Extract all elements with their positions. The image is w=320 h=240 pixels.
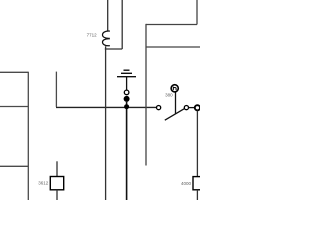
svg-text:3612: 3612 [38,180,49,185]
switch blade [165,109,185,121]
resistor 4000 [193,177,204,190]
wire [0,165,28,167]
wire [196,190,198,200]
wire [56,190,58,200]
junction dot [124,104,129,109]
svg-text:4000: 4000 [181,181,192,186]
wire [56,161,58,176]
contact circle (filled) [124,96,130,102]
wire [107,0,109,31]
wire [196,111,198,177]
terminal ring [195,105,200,110]
wire [189,107,195,109]
wire [27,72,29,200]
switch linkage [175,92,177,114]
wire [105,46,107,200]
wire [145,24,147,166]
actuator circle n [171,85,178,92]
wire [55,72,57,107]
contact circle (open) [124,90,129,95]
inductor 7712 [102,31,109,46]
ground [117,70,136,77]
wire [126,77,128,90]
switch contact circle right [184,106,188,110]
wire [146,46,200,48]
wire [146,24,197,26]
wire [126,102,128,200]
wire [0,106,28,108]
wire [121,0,123,49]
svg-text:7712: 7712 [87,33,98,38]
svg-text:380: 380 [165,93,173,98]
wire [105,48,122,50]
wire [56,106,156,108]
label n [173,87,176,91]
switch contact circle left [157,106,161,110]
wire [196,0,198,25]
wire [0,71,28,73]
resistor 3612 [50,177,63,190]
